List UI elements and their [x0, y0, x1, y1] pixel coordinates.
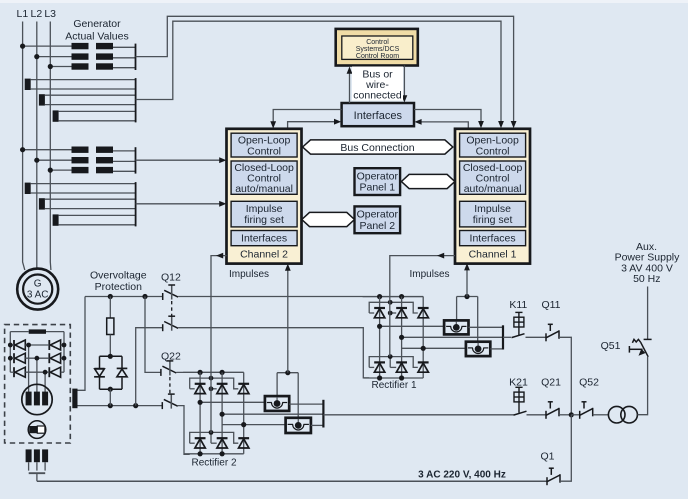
arrow into channel 2 from VT2: [219, 157, 226, 163]
arrow into channel 1 top from VT1: [511, 121, 517, 128]
svg-text:L1: L1: [17, 8, 29, 20]
terminal bar CT2: [135, 182, 137, 226]
svg-text:Impulses: Impulses: [229, 269, 269, 280]
svg-text:auto/manual: auto/manual: [235, 183, 293, 195]
control room box: [336, 29, 418, 66]
wire interfaces to control room up: [349, 72, 351, 104]
contact K11: [512, 334, 525, 338]
breaker Q52: [580, 402, 593, 419]
field connector bar rectifier 2: [322, 400, 324, 428]
breaker Q12 upper contact: [163, 285, 178, 300]
exciter field winding bar: [29, 329, 46, 333]
wire node B line: [78, 405, 163, 407]
svg-text:Protection: Protection: [95, 281, 142, 293]
operator panel 2 hexagon: [302, 212, 355, 226]
svg-text:Bus Connection: Bus Connection: [340, 142, 414, 154]
svg-text:Control: Control: [366, 39, 389, 46]
label aux power supply: [615, 241, 681, 285]
junction ovp top: [108, 354, 113, 359]
rectifier 2 gate wiring top row: [190, 376, 239, 391]
exciter field terminal bar: [72, 389, 77, 409]
Channel 2 closed-loop control box: [231, 161, 297, 194]
wire channel 1 to interfaces: [418, 122, 468, 129]
rectifier 2 thyristors bottom row: [195, 438, 249, 448]
breaker Q22 upper contact: [161, 361, 176, 376]
svg-text:L3: L3: [44, 8, 56, 20]
svg-text:Overvoltage: Overvoltage: [90, 270, 147, 282]
resistor ovp: [107, 318, 114, 335]
svg-text:Interfaces: Interfaces: [354, 110, 403, 122]
wire channel 2 to interfaces: [288, 122, 338, 129]
wire Q52 to transformer: [593, 414, 609, 416]
wire Q22 upper out: [176, 371, 243, 373]
arrow impulses channel 2: [216, 253, 223, 259]
svg-text:Q52: Q52: [579, 377, 599, 389]
wires VT2 secondary: [113, 151, 136, 171]
rectifier 2 gate wiring bottom row: [190, 430, 239, 443]
terminal bar VT1: [135, 44, 137, 70]
wire PMG to 400Hz bus: [29, 472, 46, 474]
interfaces box: [342, 103, 414, 126]
wire K21 to Q21: [527, 414, 547, 416]
wire Q12 lower feed: [136, 328, 163, 406]
contact K21: [514, 411, 527, 415]
wire rectifier 2 bar to K21: [323, 414, 513, 416]
wire Q22 upper feed: [145, 297, 161, 373]
svg-text:Interfaces: Interfaces: [470, 233, 516, 245]
diode ovp right: [117, 368, 128, 376]
svg-text:Generator: Generator: [73, 18, 121, 30]
wire rectifier 2 tap 3: [222, 424, 286, 426]
wire Q22 lower out: [178, 406, 190, 455]
breaker Q12 lower contact: [163, 316, 178, 331]
exciter armature: [22, 384, 52, 414]
current transformer CT1 windings: [25, 79, 59, 122]
wire channel 1 feedback: [466, 266, 468, 296]
wires VT1 secondary: [113, 47, 136, 67]
mechanical link Q12: [171, 301, 173, 319]
wire aux supply feed: [647, 287, 649, 340]
label Bus or wire-connected: [352, 67, 403, 101]
Channel 2 impulse firing set box: [231, 201, 297, 227]
transducer rectifier 2 upper: [265, 396, 289, 411]
wires VT2 primary taps: [20, 147, 72, 173]
bus connection hexagon: [303, 140, 453, 154]
wires CT2 secondary: [31, 184, 136, 225]
wire rectifier 1 tap 3: [402, 347, 466, 349]
mechanical link Q22: [169, 377, 171, 394]
wire rectifier 1 tap 1: [380, 325, 445, 327]
rectifier 1 phase columns: [380, 297, 424, 378]
operator panel 2 box: [355, 206, 401, 233]
wire rectifier 1 tap 2: [402, 336, 503, 338]
wire K11 to Q11: [526, 336, 547, 338]
transducer rectifier 1 lower: [466, 342, 490, 356]
arrow into interfaces right: [414, 119, 421, 125]
terminal bar CT1: [135, 78, 137, 122]
rotating rectifier diodes right: [49, 340, 60, 377]
wire L3: [49, 22, 52, 271]
arrow up into control room: [347, 67, 353, 74]
transducer rectifier 1 upper: [444, 320, 468, 334]
rectifier 2 thyristors top row: [195, 384, 249, 394]
diode ovp left: [94, 369, 105, 377]
svg-text:Panel 2: Panel 2: [359, 220, 395, 232]
svg-text:Systems/DCS: Systems/DCS: [356, 46, 400, 53]
svg-text:Interfaces: Interfaces: [241, 233, 287, 245]
current transformer CT2 windings: [25, 183, 59, 226]
wire interfaces to channel 2: [273, 110, 341, 126]
terminal bar VT2: [135, 147, 137, 173]
wire VT1 to channel 1 top: [136, 16, 514, 124]
wire field bar to node A: [78, 297, 86, 391]
svg-text:Q1: Q1: [540, 451, 554, 463]
wire Q21 out: [559, 414, 571, 416]
svg-text:50 Hz: 50 Hz: [633, 273, 660, 285]
wire Q12 upper out: [178, 296, 423, 298]
wire transducer outputs rectifier 1: [469, 326, 504, 328]
Channel 1 open-loop control box: [460, 133, 526, 157]
wire Q11 out: [559, 337, 571, 415]
Channel 1 interfaces box: [460, 231, 526, 246]
wires VT1 primary taps: [20, 44, 72, 70]
rectifier 1 gate wiring top row: [369, 300, 418, 316]
wire to Q52: [571, 414, 579, 416]
Channel 2 interfaces box: [231, 231, 297, 246]
wire exciter DC loop: [10, 331, 28, 333]
wire CT1 to channel 1 top: [136, 21, 501, 124]
junction ovp bottom: [108, 387, 113, 392]
wire channel 1 impulses: [390, 256, 455, 357]
svg-text:Panel 1: Panel 1: [359, 182, 395, 194]
wire 400Hz bus: [37, 480, 547, 482]
svg-text:K11: K11: [509, 299, 527, 311]
wire CT2 to channel 2: [136, 203, 224, 205]
rectifier 1 thyristors top row: [374, 308, 428, 318]
voltage transformer VT1 windings: [72, 43, 114, 70]
wires rotating rectifier rows: [8, 343, 67, 392]
wire VT2 to channel 2: [136, 159, 224, 161]
Channel 2 open-loop control box: [231, 133, 297, 157]
junction Q21 Q52 Q1: [569, 412, 574, 417]
svg-text:Rectifier 1: Rectifier 1: [371, 380, 416, 391]
wire channel 2 impulses: [211, 256, 227, 433]
voltage transformer VT2 windings: [72, 147, 114, 174]
relay coil K11: [514, 312, 524, 335]
rectifier 1 top bus: [363, 296, 424, 298]
wire channel 2 feedback: [287, 267, 289, 373]
transducer rectifier 2 lower: [286, 418, 311, 433]
wire interfaces to channel 1: [414, 110, 481, 125]
rectifier 1 gate wiring bottom row: [369, 354, 418, 367]
svg-text:Channel 2: Channel 2: [240, 249, 288, 261]
field connector bar rectifier 1: [502, 325, 504, 349]
arrow feedback channel 2: [285, 264, 291, 271]
disconnector Q51: [629, 339, 651, 356]
wire ovp lower: [109, 389, 111, 405]
rectifier 1 bottom bus: [364, 377, 424, 379]
svg-text:auto/manual: auto/manual: [464, 183, 522, 195]
generator G 3AC: [17, 269, 58, 310]
wire field bar to K11: [503, 336, 511, 338]
breaker Q11: [546, 324, 559, 341]
svg-text:3 AC: 3 AC: [27, 290, 49, 301]
rectifier 2 top bus: [183, 371, 244, 373]
wire L1: [23, 22, 25, 271]
svg-text:Operator: Operator: [357, 209, 399, 221]
rectifier 1 thyristors bottom row: [374, 362, 428, 372]
junction node A ovp: [108, 294, 113, 299]
arrow into channel 2 top: [270, 121, 276, 128]
svg-text:Control Room: Control Room: [356, 53, 399, 60]
junction node A branch: [142, 294, 147, 299]
breaker Q1: [547, 468, 560, 485]
svg-text:Q51: Q51: [601, 340, 621, 352]
wire control room to interfaces down: [403, 66, 405, 99]
svg-text:G: G: [34, 279, 42, 290]
arrow feedback channel 1: [464, 263, 470, 270]
svg-text:Channel 1: Channel 1: [469, 249, 517, 261]
rotating rectifier diodes left: [14, 340, 25, 377]
svg-text:firing set: firing set: [473, 214, 513, 226]
svg-text:connected: connected: [353, 90, 402, 102]
arrow into channel 1 top from interfaces: [478, 121, 484, 128]
rectifier 2 bottom bus: [184, 453, 244, 455]
wire transducer outputs rectifier 2: [289, 403, 323, 405]
svg-text:Control: Control: [476, 145, 510, 157]
pilot exciter PMG: [28, 421, 46, 439]
Channel 1 box: [455, 129, 530, 264]
wire Q1 out: [560, 415, 571, 481]
junction node B ovp: [108, 403, 113, 408]
wire Q12 lower out: [178, 328, 369, 378]
arrow into channel 2 from CT2: [219, 201, 226, 207]
svg-text:Rectifier 2: Rectifier 2: [191, 458, 236, 469]
svg-text:Q21: Q21: [541, 377, 561, 389]
svg-text:Control: Control: [247, 145, 281, 157]
wire node A line: [85, 296, 163, 298]
svg-text:Q12: Q12: [161, 272, 181, 284]
Channel 1 closed-loop control box: [460, 161, 526, 194]
svg-text:Impulses: Impulses: [409, 269, 449, 280]
rectifier 2 phase columns: [200, 372, 244, 453]
relay coil K21: [514, 387, 524, 413]
svg-text:firing set: firing set: [244, 214, 284, 226]
svg-text:Actual Values: Actual Values: [65, 31, 128, 43]
svg-text:Q11: Q11: [541, 299, 560, 311]
ovp diode box: [100, 355, 123, 357]
wire ovp upper: [109, 297, 111, 319]
operator panel 1 hexagon: [401, 174, 454, 188]
arrow Q51: [636, 349, 645, 358]
svg-text:Operator: Operator: [357, 170, 399, 182]
wire ovp mid: [109, 335, 111, 357]
arrow impulses channel 1: [437, 253, 444, 259]
junction node B branch: [133, 403, 138, 408]
wire rectifier 2 tap 2: [222, 413, 323, 415]
wire rectifier 2 tap 1: [200, 401, 265, 403]
operator panel 1 box: [355, 168, 401, 195]
Channel 2 box: [227, 129, 302, 264]
PMG output terminals: [26, 449, 48, 470]
svg-text:3 AC 220 V, 400 Hz: 3 AC 220 V, 400 Hz: [418, 470, 506, 481]
breaker Q22 lower contact: [162, 394, 177, 409]
svg-text:L2: L2: [31, 8, 43, 20]
wire L2: [36, 22, 38, 268]
wires CT1 secondary: [31, 80, 136, 121]
arrow into interfaces left: [334, 119, 341, 125]
Channel 1 impulse firing set box: [460, 201, 526, 227]
wire transformer to Q51: [637, 357, 647, 415]
breaker Q21: [546, 402, 559, 419]
arrow down into interfaces: [402, 95, 408, 102]
exciter enclosure dashed box: [5, 325, 71, 443]
transformer aux: [608, 406, 625, 423]
wire channel 1 firing leads: [456, 297, 458, 321]
arrow into channel 1 top from CT1: [498, 121, 504, 128]
wire channel 2 firing leads: [276, 373, 278, 396]
